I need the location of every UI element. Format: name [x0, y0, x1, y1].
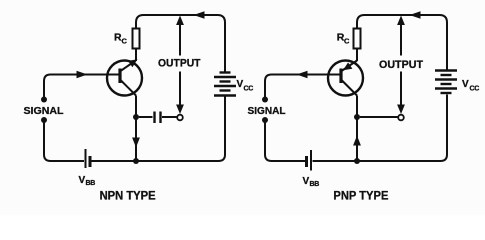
wire: capacitor to output terminal — [162, 116, 177, 118]
arrowhead on emitter wire (points down) — [132, 138, 140, 148]
transistor Q2 circle — [328, 61, 363, 96]
battery VBB (long plate) — [85, 149, 87, 168]
transistor Q2 emitter lead (diagonal down) — [342, 80, 358, 96]
wire: emitter down to bottom rail — [135, 96, 137, 162]
transistor Q1 collector lead (diagonal up) — [121, 61, 136, 71]
wire: signal input top to base — [44, 75, 119, 98]
wire: output line lower segment — [179, 72, 181, 107]
arrowhead on emitter wire (points up) — [353, 136, 361, 146]
resistor RC body — [133, 29, 140, 49]
wire: signal bottom down to VBB — [44, 123, 84, 162]
svg-text:BB: BB — [310, 181, 320, 188]
wire: junction to output terminal — [360, 116, 398, 118]
wire: transistor top to resistor — [135, 49, 137, 62]
wire: output line upper segment — [400, 22, 402, 56]
svg-text:V: V — [79, 175, 86, 186]
svg-text:OUTPUT: OUTPUT — [379, 59, 423, 71]
wire: resistor top over top rail down to VCC — [136, 15, 225, 72]
wire: signal input top to base — [265, 75, 340, 98]
battery VBB (short plate) — [89, 156, 92, 167]
capacitor C1 right plate — [159, 112, 161, 124]
transistor Q1 circle — [107, 61, 142, 96]
output line down arrow — [176, 105, 184, 115]
PNP emitter arrow (points in, down-left) — [343, 62, 352, 70]
battery VCC plates (short top) — [220, 71, 231, 73]
svg-text:PNP TYPE: PNP TYPE — [333, 189, 388, 203]
wire: transistor top to resistor — [356, 49, 358, 62]
svg-text:OUTPUT: OUTPUT — [158, 58, 201, 70]
output line up arrow — [176, 16, 184, 26]
output line up arrow — [397, 16, 405, 26]
svg-text:BB: BB — [86, 180, 96, 187]
wire: signal bottom down to VBB — [265, 123, 305, 162]
node: signal bottom terminal — [262, 117, 268, 123]
svg-text:C: C — [122, 37, 128, 46]
arrowhead on base wire (points right) — [77, 71, 88, 78]
node: signal top terminal — [262, 97, 268, 103]
resistor RC body — [354, 29, 361, 49]
wire: output line lower segment — [400, 72, 402, 107]
svg-text:V: V — [303, 176, 310, 187]
arrowhead on base wire (points left) — [297, 71, 308, 78]
node: signal bottom terminal — [41, 117, 47, 123]
NPN emitter arrow (points out, up-right) — [128, 59, 137, 67]
svg-text:V: V — [462, 79, 469, 90]
node: emitter/bottom-rail junction — [133, 158, 139, 164]
node: emitter/bottom-rail junction — [354, 158, 360, 164]
capacitor C1 left plate — [153, 112, 155, 124]
wire: bottom rail from VBB to VCC — [92, 96, 226, 161]
svg-text:SIGNAL: SIGNAL — [248, 106, 287, 117]
node: emitter/output junction — [133, 114, 139, 120]
transistor Q2 collector lead (diagonal up) — [342, 61, 358, 72]
svg-text:C: C — [344, 37, 350, 46]
svg-text:CC: CC — [244, 86, 254, 93]
transistor Q1 base bar — [118, 69, 121, 84]
svg-text:CC: CC — [470, 86, 480, 93]
arrowhead on top rail (points left) — [194, 11, 205, 18]
wire: bottom rail from VBB to VCC — [313, 95, 448, 162]
svg-text:SIGNAL: SIGNAL — [24, 106, 65, 117]
output line down arrow — [397, 105, 405, 115]
arrowhead on top rail (points left) — [410, 11, 421, 18]
battery VCC plates (long top) — [435, 69, 457, 71]
svg-text:NPN TYPE: NPN TYPE — [100, 189, 156, 203]
output terminal (open circle) — [398, 115, 404, 121]
svg-text:V: V — [237, 79, 244, 90]
transistor Q2 base bar — [339, 69, 342, 84]
output terminal (open circle) — [177, 115, 183, 121]
node: signal top terminal — [41, 97, 47, 103]
wire: output line upper segment — [179, 22, 181, 56]
wire: emitter down to bottom rail — [356, 96, 358, 162]
wire: junction to capacitor — [139, 116, 153, 118]
transistor Q1 emitter lead (diagonal down) — [121, 80, 137, 96]
wire: resistor top over top rail down to VCC — [357, 15, 447, 71]
battery VBB (short plate) — [305, 156, 308, 167]
battery VBB (long plate) — [310, 150, 312, 171]
node: emitter/output junction — [354, 114, 360, 120]
